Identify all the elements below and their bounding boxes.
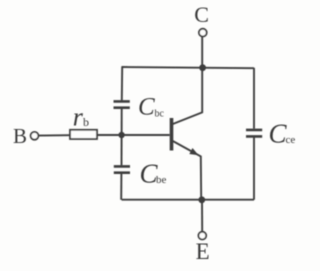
- wire right upper segment: [253, 68, 255, 129]
- svg-text:ce: ce: [286, 134, 296, 146]
- node emitter junction: [198, 196, 205, 203]
- node base junction: [118, 132, 124, 138]
- resistor r_b: [70, 130, 97, 139]
- svg-text:C: C: [194, 2, 209, 27]
- transistor Q1 emitter lead: [173, 141, 201, 200]
- terminal B: [31, 132, 39, 140]
- wire top rail: [122, 67, 254, 68]
- wire left upper segment: [121, 67, 123, 101]
- svg-text:bc: bc: [155, 109, 165, 120]
- wire right lower segment: [253, 138, 255, 200]
- terminal C: [199, 29, 207, 37]
- transistor Q1 emitter arrow: [189, 148, 198, 155]
- wire emitter to terminal: [201, 200, 203, 232]
- capacitor C_be: [114, 166, 130, 172]
- transistor Q1 base bar: [170, 118, 174, 151]
- capacitor C_bc: [114, 101, 130, 107]
- svg-text:b: b: [83, 115, 89, 129]
- node collector junction: [199, 64, 206, 71]
- capacitor C_ce: [246, 130, 262, 137]
- wire bottom rail: [122, 199, 254, 201]
- wire left middle segment: [121, 109, 123, 165]
- svg-text:be: be: [156, 174, 167, 186]
- wire B to resistor: [39, 134, 70, 136]
- svg-text:B: B: [13, 124, 27, 148]
- svg-text:E: E: [196, 239, 210, 264]
- wire left lower segment: [120, 174, 122, 200]
- transistor Q1 collector lead: [173, 37, 202, 124]
- terminal E: [198, 232, 206, 240]
- wire resistor to node: [97, 134, 170, 136]
- svg-text:C: C: [138, 94, 155, 121]
